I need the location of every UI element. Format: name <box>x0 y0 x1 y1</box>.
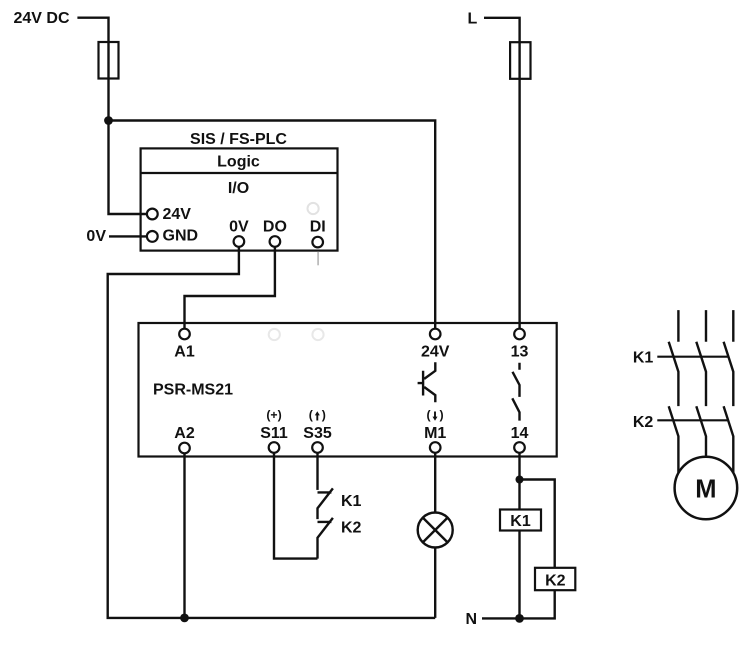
junction node <box>104 116 113 125</box>
svg-text:K1: K1 <box>633 350 654 367</box>
terminal PLC DO <box>270 236 281 247</box>
junction 14 branch <box>516 476 524 484</box>
safety contacts 13-14 <box>512 363 519 421</box>
svg-text:A2: A2 <box>174 425 195 442</box>
svg-text:PSR-MS21: PSR-MS21 <box>153 382 233 399</box>
svg-text:24V DC: 24V DC <box>14 10 70 27</box>
wire S11 feedback loop <box>274 453 318 559</box>
contactor K2 linkage <box>657 419 728 421</box>
terminal A2 <box>179 443 190 454</box>
svg-text:): ) <box>439 408 443 422</box>
unused terminal (grey) in PLC <box>308 203 319 214</box>
unused terminal (grey) left <box>269 329 280 340</box>
wire M1 to lamp <box>434 453 436 513</box>
wire N <box>482 617 520 619</box>
svg-text:K1: K1 <box>341 493 362 510</box>
junction N <box>515 614 524 623</box>
svg-text:Logic: Logic <box>217 153 260 170</box>
transistor output 24V-M1 <box>418 362 436 402</box>
svg-text:K1: K1 <box>510 513 531 530</box>
coil K1 <box>500 510 541 531</box>
terminal M1 <box>430 442 441 453</box>
contact K1 (NC feedback) <box>318 488 333 519</box>
fuse F2 <box>510 42 530 79</box>
svg-text:S11: S11 <box>260 425 288 442</box>
unused terminal (grey) right <box>312 329 323 340</box>
terminal PLC GND <box>147 231 158 242</box>
terminal 14 <box>514 442 525 453</box>
wire K1 coil to N <box>518 531 520 619</box>
svg-text:L: L <box>468 11 478 28</box>
terminal S35 <box>312 442 323 453</box>
wire A2 to bottom rail <box>183 453 185 618</box>
terminal S11 <box>269 442 280 453</box>
svg-text:S35: S35 <box>303 425 332 442</box>
svg-text:K2: K2 <box>545 573 566 590</box>
contact K2 (NC feedback) <box>318 518 333 559</box>
wire PLC 0V to left rail to bottom rail <box>108 247 436 618</box>
junction A2/bottom rail <box>180 614 189 623</box>
wire 24VDC feed <box>77 18 108 121</box>
PLC box <box>141 148 338 250</box>
contactor K1 linkage <box>657 356 728 358</box>
lamp H1 <box>418 513 453 548</box>
PLC logic divider <box>141 172 338 174</box>
three phase L3 with K1/K2 contacts <box>724 310 734 472</box>
svg-text:DO: DO <box>263 219 287 236</box>
svg-text:13: 13 <box>511 344 529 361</box>
svg-text:24V: 24V <box>421 344 450 361</box>
terminal A1 <box>179 329 190 340</box>
coil K2 <box>535 568 575 590</box>
terminal PLC 24V <box>147 209 158 220</box>
terminal PLC 0V <box>234 236 245 247</box>
three phase L1 with K1/K2 contacts <box>669 310 679 472</box>
wire S35 down <box>316 453 318 490</box>
terminal PSR 24V <box>430 329 441 340</box>
svg-text:14: 14 <box>511 425 529 442</box>
svg-text:24V: 24V <box>163 206 192 223</box>
wire 24V rail to PSR A1-supply <box>109 121 436 329</box>
grey stub below DI <box>317 252 319 266</box>
wire branch to K2 coil <box>520 480 555 568</box>
wire 0V to GND <box>109 235 147 237</box>
svg-text:A1: A1 <box>174 344 195 361</box>
svg-text:K2: K2 <box>341 520 362 537</box>
wire DO to A1 <box>185 247 275 329</box>
svg-text:GND: GND <box>163 228 199 245</box>
terminal 13 <box>514 329 525 340</box>
three phase L2 with K1/K2 contacts <box>696 310 706 457</box>
svg-text:(+): (+) <box>266 408 281 422</box>
svg-text:DI: DI <box>310 219 326 236</box>
svg-text:M: M <box>695 476 716 504</box>
svg-text:0V: 0V <box>229 219 249 236</box>
terminal PLC DI <box>312 237 323 248</box>
wire 14 down <box>518 453 520 510</box>
PSR-MS21 box <box>139 323 557 457</box>
svg-text:M1: M1 <box>424 425 446 442</box>
svg-text:N: N <box>465 611 477 628</box>
svg-text:SIS / FS-PLC: SIS / FS-PLC <box>190 131 287 148</box>
fuse F1 <box>99 42 119 79</box>
svg-text:): ) <box>322 408 326 422</box>
svg-text:I/O: I/O <box>228 180 249 197</box>
wire L to fuse to terminal 13 <box>484 18 520 329</box>
motor M <box>675 457 738 520</box>
wire lamp to bottom rail <box>434 548 436 618</box>
wire junction to PLC 24V input <box>109 121 147 215</box>
wire K2 coil to N <box>520 590 555 618</box>
svg-text:K2: K2 <box>633 414 654 431</box>
svg-text:0V: 0V <box>86 228 106 245</box>
